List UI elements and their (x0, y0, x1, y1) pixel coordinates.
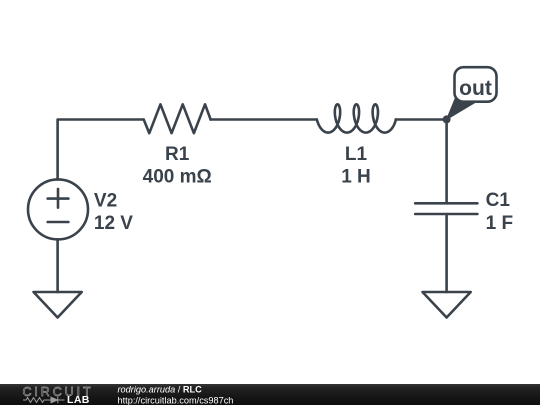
svg-text:L1: L1 (345, 144, 368, 165)
ground left (34, 292, 82, 318)
wire inductor to node (396, 118, 447, 121)
wire node to capacitor (445, 120, 448, 204)
svg-text:400 mΩ: 400 mΩ (143, 167, 212, 188)
svg-text:rodrigo.arruda / RLC: rodrigo.arruda / RLC (118, 385, 203, 395)
footer bar (0, 384, 540, 405)
resistor R1 (144, 104, 211, 133)
out flag box (455, 67, 497, 102)
wire resistor to inductor (211, 118, 317, 121)
svg-text:R1: R1 (165, 144, 190, 165)
capacitor C1 top plate (415, 202, 477, 205)
capacitor C1 bottom plate (415, 213, 477, 216)
svg-text:out: out (459, 77, 492, 100)
out flag pointer (447, 97, 475, 120)
svg-text:C1: C1 (486, 190, 511, 211)
logo diode (51, 397, 65, 403)
ground right (423, 292, 471, 318)
wire V2 bottom to ground (56, 239, 59, 292)
V2 minus sign (48, 221, 69, 224)
svg-text:12 V: 12 V (94, 213, 133, 234)
wire capacitor to ground (445, 214, 448, 292)
svg-text:1 H: 1 H (341, 167, 371, 188)
svg-text:http://circuitlab.com/cs987ch: http://circuitlab.com/cs987ch (118, 396, 234, 405)
V2 plus sign (48, 189, 69, 208)
svg-text:1 F: 1 F (486, 213, 513, 234)
node out junction dot (443, 115, 451, 123)
svg-text:V2: V2 (94, 191, 117, 212)
voltage source V2 circle (28, 179, 88, 239)
inductor L1 (317, 104, 396, 132)
svg-text:LAB: LAB (67, 394, 90, 405)
logo squiggle resistor (23, 398, 51, 403)
wire V2 top to corner (58, 120, 144, 180)
